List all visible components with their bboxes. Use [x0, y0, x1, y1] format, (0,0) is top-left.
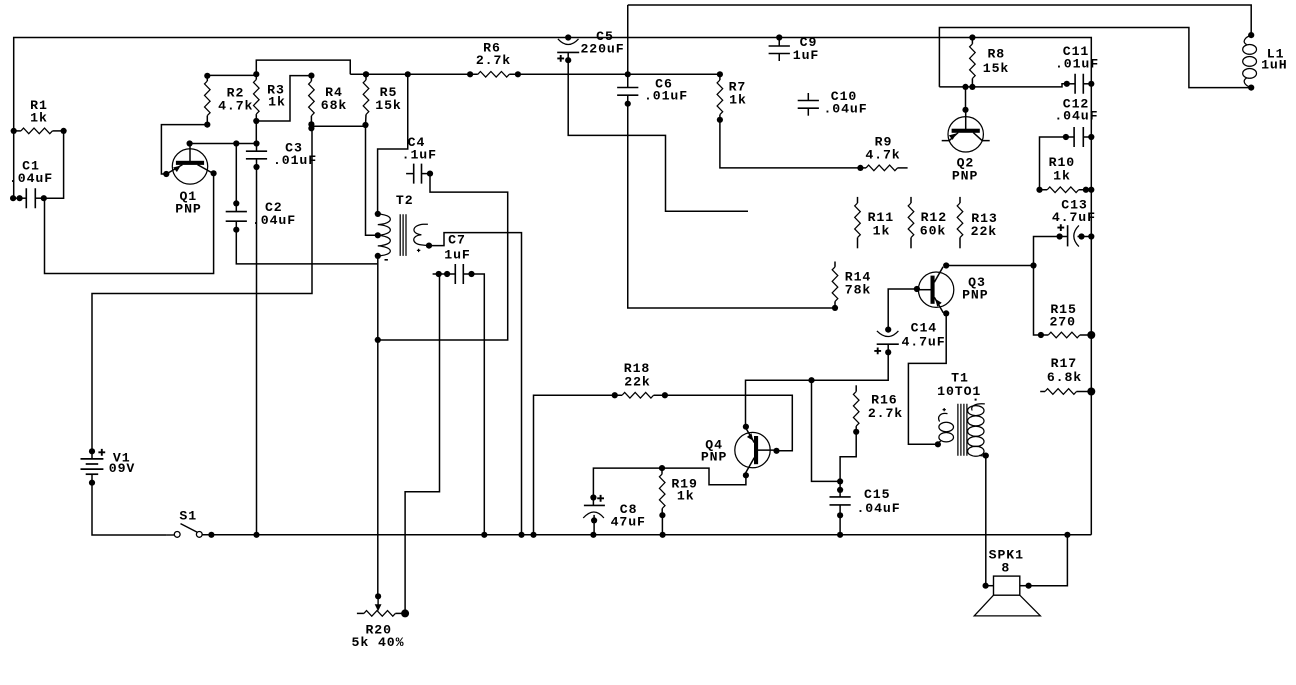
capacitor C4 — [406, 164, 433, 184]
wire Q3 emitter to T1 left — [908, 313, 946, 444]
wire rail0 to L1 — [628, 5, 1251, 35]
wire L1 bottom to R8 net — [939, 28, 1251, 88]
wire Q1 base to C3 top — [190, 143, 257, 145]
label R16 — [868, 393, 903, 422]
svg-text:68k: 68k — [321, 98, 347, 113]
label C11 — [1055, 44, 1099, 72]
transistor Q3 — [914, 262, 954, 316]
wire R4 bottom to R5 bottom — [311, 125, 365, 127]
svg-text:R8: R8 — [987, 47, 1005, 62]
wire V1 to S1 — [92, 483, 167, 535]
resistor R3 — [253, 71, 259, 124]
svg-text:.01uF: .01uF — [644, 89, 688, 104]
resistor R11 — [855, 197, 861, 248]
wire C13 left to R15 left — [1034, 237, 1060, 336]
transistor Q4 — [735, 424, 780, 479]
transformer T1 — [935, 399, 989, 459]
capacitor C8 — [583, 494, 605, 538]
wire C3 to ground rail — [256, 167, 258, 535]
wire T1 to SPK1 left — [985, 456, 987, 586]
svg-text:1k: 1k — [677, 489, 695, 504]
wire R19 top to C8 — [593, 468, 662, 497]
svg-text:.1uF: .1uF — [402, 148, 437, 163]
svg-text:C7: C7 — [448, 233, 466, 248]
wire C4 right to T2 bottom — [378, 174, 508, 340]
label R4 — [321, 85, 347, 113]
resistor R4 — [308, 73, 314, 132]
label R5 — [375, 85, 401, 113]
capacitor C6 — [617, 71, 638, 107]
svg-text:47uF: 47uF — [611, 515, 646, 530]
label R8 — [983, 47, 1009, 77]
wire R1 right to C1 right — [44, 131, 64, 198]
label C3 — [273, 141, 317, 169]
wire rail1 extension to C11 right — [972, 38, 1091, 84]
capacitor C7 — [433, 264, 475, 284]
label R20 — [352, 623, 405, 650]
label R3 — [267, 83, 286, 110]
resistor R17 — [1040, 388, 1095, 396]
svg-text:09V: 09V — [109, 461, 135, 476]
label T2 — [396, 193, 414, 208]
label R12 — [920, 210, 947, 239]
wire R1 left to C1 — [13, 131, 15, 198]
label C7 — [444, 233, 470, 263]
svg-text:270: 270 — [1049, 315, 1075, 330]
label R17 — [1047, 356, 1082, 385]
svg-text:S1: S1 — [179, 509, 197, 524]
label R9 — [865, 135, 900, 163]
capacitor C15 — [830, 478, 851, 538]
resistor R8 — [969, 34, 975, 90]
wire R16 bottom to C15 — [840, 432, 856, 482]
svg-text:.04uF: .04uF — [1054, 109, 1098, 124]
label L1 — [1261, 47, 1287, 73]
wire R2 top to R3 top — [207, 74, 256, 76]
potentiometer R20 — [357, 593, 409, 617]
label R14 — [845, 270, 871, 298]
svg-text:.04uF: .04uF — [823, 102, 867, 117]
label Q4 — [701, 437, 727, 464]
svg-text:1k: 1k — [1053, 169, 1071, 184]
capacitor C12 — [1063, 127, 1095, 147]
svg-text:10TO1: 10TO1 — [937, 384, 981, 399]
wire R5 bottom to T2 — [366, 125, 378, 235]
svg-text:PNP: PNP — [701, 449, 727, 464]
svg-text:.04uF: .04uF — [252, 213, 296, 228]
wire top rail from R1 to R8 — [14, 38, 973, 131]
svg-text:2.7k: 2.7k — [476, 53, 511, 68]
resistor R10 — [1036, 187, 1094, 193]
wire rail2 left of R6 — [350, 71, 478, 77]
svg-text:PNP: PNP — [952, 168, 978, 183]
svg-text:.04uF: .04uF — [9, 171, 53, 186]
resistor R6 — [467, 71, 521, 77]
svg-text:4.7k: 4.7k — [865, 148, 900, 163]
wire C2 bottom to T2 bottom — [236, 230, 377, 264]
resistor R9 — [857, 165, 907, 171]
resistor R19 — [659, 465, 666, 518]
svg-text:.01uF: .01uF — [273, 153, 317, 168]
svg-text:.04uF: .04uF — [856, 501, 900, 516]
svg-text:4.7uF: 4.7uF — [1052, 210, 1096, 225]
label C2 — [252, 200, 296, 228]
resistor R14 — [832, 262, 838, 312]
label C10 — [823, 89, 867, 117]
capacitor C2 — [226, 140, 247, 232]
label C15 — [856, 487, 900, 516]
svg-text:.01uF: .01uF — [1055, 57, 1099, 72]
resistor R1 — [11, 128, 67, 134]
wire Q3 base to C14 top — [888, 289, 917, 330]
label Q2 — [952, 155, 978, 183]
label C5 — [580, 29, 624, 57]
wire C7 right to ground — [472, 274, 485, 535]
wire right bus C11 to ground — [1090, 84, 1092, 535]
label R19 — [671, 477, 697, 504]
svg-text:60k: 60k — [920, 224, 946, 239]
wire C5 bottom to stub — [568, 60, 748, 211]
svg-text:R17: R17 — [1051, 356, 1077, 371]
capacitor C14 — [874, 327, 899, 356]
svg-text:4.7k: 4.7k — [218, 99, 253, 114]
label Q1 — [175, 189, 201, 217]
svg-text:15k: 15k — [983, 61, 1009, 76]
wire R7 bottom to R9 left — [720, 120, 861, 168]
label C1 — [9, 158, 53, 186]
capacitor C9 — [769, 34, 790, 61]
svg-text:1k: 1k — [873, 224, 891, 239]
wire R18 right to Q4 base — [665, 395, 792, 451]
label R18 — [624, 361, 651, 390]
label C8 — [611, 502, 646, 530]
transformer T2 — [375, 211, 432, 260]
capacitor C5 — [557, 34, 579, 63]
svg-text:1k: 1k — [729, 93, 747, 108]
svg-text:PNP: PNP — [962, 288, 988, 303]
wire Q3 collector to C13 branch — [946, 262, 1036, 268]
label C6 — [644, 77, 688, 104]
wire R4 bottom to V1 — [92, 128, 312, 451]
wire C14 bottom to Q4 top — [746, 352, 889, 426]
svg-text:4.7uF: 4.7uF — [901, 335, 945, 350]
transistor Q2 — [942, 110, 990, 152]
resistor R15 — [1038, 331, 1096, 339]
wire ground to R18 left — [534, 395, 615, 535]
svg-text:C15: C15 — [864, 487, 890, 502]
label V1 — [109, 451, 135, 477]
wire C14 net to C15 — [812, 380, 841, 481]
wire C7 left to R20 right — [405, 274, 439, 613]
label R1 — [30, 98, 48, 126]
wire Q4 emitter to R19 top — [662, 468, 746, 485]
wire ground rail — [202, 532, 1091, 538]
svg-text:8: 8 — [1001, 561, 1010, 576]
label C4 — [402, 135, 437, 163]
svg-text:1k: 1k — [268, 95, 286, 110]
resistor R18 — [612, 392, 668, 398]
capacitor C3 — [246, 140, 267, 170]
svg-text:22k: 22k — [971, 224, 997, 239]
wire Q2 base — [962, 87, 968, 113]
wire C12 left to R10 left — [1040, 137, 1066, 190]
svg-text:1uF: 1uF — [444, 248, 470, 263]
resistor R16 — [853, 385, 859, 435]
label C14 — [901, 321, 945, 350]
svg-text:220uF: 220uF — [580, 42, 624, 57]
label C12 — [1054, 97, 1098, 124]
capacitor C13 — [1057, 224, 1095, 246]
svg-text:2.7k: 2.7k — [868, 406, 903, 421]
svg-text:1k: 1k — [30, 111, 48, 126]
label R13 — [971, 211, 998, 239]
label R10 — [1049, 155, 1075, 184]
svg-text:5k 40%: 5k 40% — [352, 635, 405, 650]
label C9 — [793, 35, 819, 63]
wire R19 bottom to ground — [660, 515, 666, 538]
svg-text:15k: 15k — [375, 98, 401, 113]
svg-text:1uF: 1uF — [793, 48, 819, 63]
capacitor C10 — [798, 93, 819, 116]
svg-text:6.8k: 6.8k — [1047, 370, 1082, 385]
wire T2 bottom to R20 wiper — [375, 256, 381, 596]
label S1 — [179, 509, 197, 524]
resistor R2 — [204, 73, 210, 125]
resistor R13 — [957, 197, 963, 248]
capacitor C1 — [10, 188, 47, 208]
svg-text:C14: C14 — [911, 321, 937, 336]
speaker SPK1 — [974, 576, 1040, 616]
wire ground to SPK1 right — [1029, 535, 1068, 586]
wire rail2 right of R6 — [509, 73, 720, 75]
battery V1 — [81, 448, 106, 486]
label SPK1 — [989, 547, 1024, 575]
resistor R5 — [362, 71, 369, 128]
switch S1 — [167, 524, 215, 538]
svg-text:22k: 22k — [624, 375, 650, 390]
capacitor C11 — [1064, 74, 1095, 94]
label R6 — [476, 40, 511, 68]
label R15 — [1049, 302, 1076, 330]
label C13 — [1052, 198, 1096, 226]
inductor L1 — [1243, 32, 1257, 91]
transistor Q1 — [163, 140, 217, 184]
svg-text:78k: 78k — [845, 283, 871, 298]
label Q3 — [962, 275, 988, 303]
wire R2 bottom to Q1 — [161, 122, 210, 175]
svg-text:T2: T2 — [396, 193, 414, 208]
svg-text:1uH: 1uH — [1261, 58, 1287, 73]
wire C6 bottom to R14 bottom — [628, 104, 835, 308]
resistor R7 — [717, 71, 723, 123]
label R11 — [868, 210, 894, 239]
wire R3 bottom to R4 top — [256, 76, 311, 121]
wire rail2 to C4 and T2 top — [378, 74, 408, 214]
wire R3 bottom to C3 — [255, 121, 257, 144]
label R7 — [729, 80, 747, 108]
label R2 — [218, 86, 253, 114]
wire rail0 down to C6 — [627, 5, 629, 74]
svg-text:PNP: PNP — [175, 202, 201, 217]
wire T2 secondary to C7 branch — [429, 233, 522, 535]
wire R3 top to rail2 — [256, 60, 350, 74]
wire R8 bottom to C11 left — [939, 84, 1066, 90]
resistor R12 — [908, 197, 914, 248]
wire C1 to Q1 right lead — [45, 173, 214, 273]
label T1 — [937, 371, 981, 400]
